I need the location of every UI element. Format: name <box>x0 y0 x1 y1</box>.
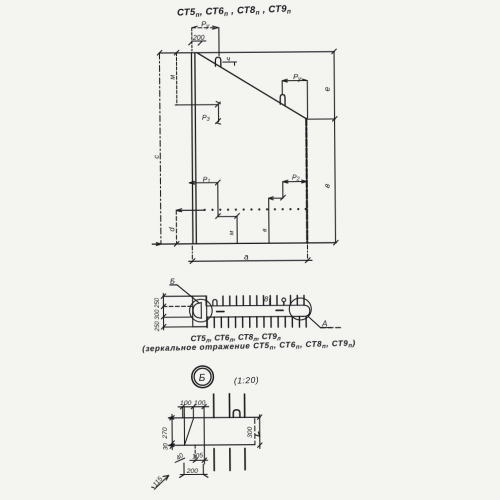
detail rect top edge <box>169 416 261 419</box>
detail right dimension 300 <box>247 415 262 449</box>
svg-text:Р1: Р1 <box>203 177 211 185</box>
title СТ5п, СТ6п, СТ8п, СТ9п <box>177 3 292 19</box>
dimension line м1 (staircase to bottom edge) <box>218 213 240 243</box>
corner connector to e dim <box>307 118 335 120</box>
tick at e/в boundary <box>332 117 337 122</box>
plan bar outline <box>207 304 304 307</box>
detail right edge (dashed cut) <box>254 418 256 444</box>
embedded plate semicircle (detail Б) <box>193 303 201 318</box>
dimension d line <box>167 209 205 244</box>
top extension line <box>159 52 334 53</box>
dimension 200 (top) <box>189 35 206 45</box>
panel bottom edge <box>152 243 336 244</box>
panel left edge (double line) <box>191 53 193 244</box>
plan bottom rebar ticks <box>207 316 306 327</box>
detail dim 105 <box>190 445 208 462</box>
svg-text:Р3: Р3 <box>202 115 211 123</box>
detail dim 40 (rotated) <box>175 452 185 463</box>
dimension Р2 staircase <box>269 175 307 201</box>
plan bar right rounded end <box>303 305 309 316</box>
svg-text:с: с <box>152 155 161 159</box>
svg-text:а: а <box>244 252 249 261</box>
detail taper diagonal <box>184 418 193 445</box>
plan left dimension line 250,300,250 <box>155 293 166 332</box>
position mark 4 <box>223 54 237 65</box>
detail rect bottom edge <box>169 444 255 447</box>
panel right edge (rough dashed) <box>305 119 308 243</box>
dimension a (bottom) <box>188 245 312 264</box>
dimension Ру (top, loop 1 offset) <box>192 19 219 56</box>
dotted hidden line <box>204 208 307 211</box>
svg-text:100: 100 <box>180 400 192 407</box>
arrow at left end of bottom edge <box>156 243 161 246</box>
detail left dimension 270 / 30 <box>162 414 175 450</box>
weld plate marks inside bar <box>217 311 224 313</box>
tick at right end bottom <box>334 240 339 245</box>
detail rebars <box>214 394 246 471</box>
svg-text:270: 270 <box>162 427 169 440</box>
svg-text:30: 30 <box>162 443 169 451</box>
lifting loop (lower, on slant) <box>280 95 285 106</box>
dimension Р1 staircase <box>189 177 220 219</box>
plan top rebar ticks <box>206 295 304 305</box>
svg-text:200: 200 <box>186 468 199 475</box>
label А with leader <box>309 317 342 329</box>
callout circle Б <box>189 299 212 322</box>
lifting loop 4 (upper) <box>215 57 220 67</box>
svg-text:м: м <box>228 230 235 235</box>
tick at d line bottom <box>174 242 179 247</box>
panel slanted top edge <box>197 52 306 120</box>
mark 115 (bottom left) <box>152 475 169 489</box>
callout circle А <box>289 298 311 320</box>
svg-text:100: 100 <box>194 400 206 407</box>
detail top dimension 100 100 <box>178 400 209 409</box>
detail callout circle Б <box>192 366 214 388</box>
plan extension lines <box>163 295 193 297</box>
svg-text:250 300 250: 250 300 250 <box>155 297 161 332</box>
tick at m line top <box>174 50 179 55</box>
svg-text:Б: Б <box>170 277 175 286</box>
dimension m (dashed vertical at x=178) <box>169 53 176 105</box>
dimension Р3 staircase <box>175 101 220 124</box>
svg-text:300: 300 <box>247 426 254 438</box>
svg-text:е: е <box>323 86 332 91</box>
detail dim 200 <box>179 463 208 478</box>
tick at e line top <box>332 49 337 54</box>
detail loop <box>233 410 240 418</box>
plan foot block <box>193 296 207 327</box>
dimension line c (left, dashed vertical) <box>151 53 162 244</box>
svg-text:Б: Б <box>199 373 206 384</box>
small circle on tick (loop end view) <box>282 298 286 302</box>
tick at c line top <box>157 50 162 55</box>
dimension line e/в (right vertical) <box>321 52 335 243</box>
svg-text:(1:20): (1:20) <box>234 375 260 386</box>
dimension line в5 (to bottom edge) <box>261 198 269 243</box>
svg-text:м: м <box>170 75 177 80</box>
plan loop (seen from side) <box>213 300 217 306</box>
dimension Ру (loop 2 offset) <box>282 72 307 118</box>
detail extension lines from top dim <box>182 407 184 418</box>
label Б with leader <box>170 276 200 303</box>
